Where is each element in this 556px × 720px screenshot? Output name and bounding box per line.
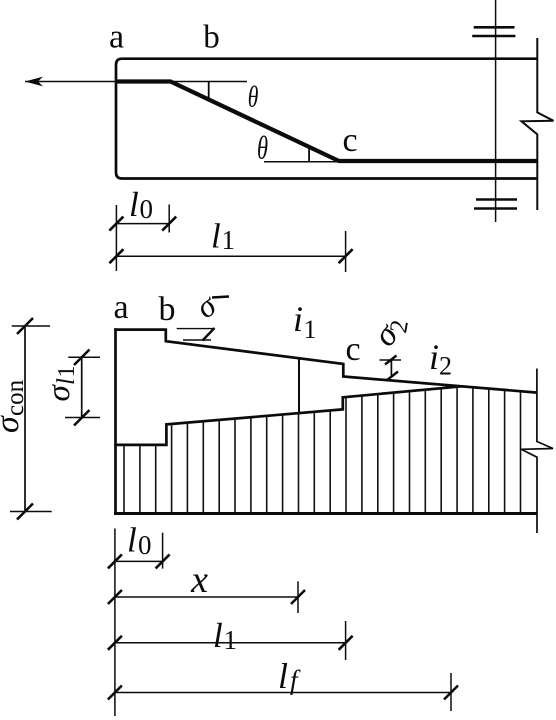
arrow head bbox=[25, 77, 43, 87]
sigma2 loss: vertical dimension line bbox=[390, 360, 392, 377]
svg-text:b: b bbox=[159, 291, 176, 328]
sigma_l1 top end line bbox=[68, 356, 100, 358]
svg-text:θ: θ bbox=[257, 130, 268, 166]
x tick right bbox=[291, 590, 305, 604]
sigma_con vertical line bbox=[24, 326, 26, 513]
svg-text:1: 1 bbox=[222, 225, 236, 255]
sigma_con bottom tick bbox=[17, 504, 33, 520]
right edge break line (bottom figure) bbox=[521, 369, 553, 534]
l0 tick right (bottom) bbox=[156, 554, 170, 568]
bottom base line bbox=[114, 512, 538, 515]
svg-text:i: i bbox=[293, 299, 303, 339]
sigma_l1 bottom end line bbox=[65, 417, 100, 419]
l0 end extension bbox=[162, 533, 164, 569]
svg-text:a: a bbox=[109, 19, 124, 56]
svg-text:l: l bbox=[53, 378, 80, 385]
x tick left bbox=[108, 590, 122, 604]
sigma1 loss: reference line lower bbox=[183, 339, 211, 341]
svg-text:1: 1 bbox=[54, 366, 80, 378]
l1 tick left (bottom) bbox=[108, 636, 122, 650]
sigma1 loss: reference line upper bbox=[177, 328, 215, 330]
x dimension line bbox=[115, 596, 298, 598]
svg-text:c: c bbox=[345, 331, 360, 368]
x end extension bbox=[297, 581, 299, 613]
sigma_con label (rotated) bbox=[0, 379, 29, 433]
sigma1 label: rotated digit 1 as bar bbox=[212, 297, 229, 298]
sigma_l1 label (rotated) bbox=[41, 366, 80, 402]
l1 tick right bbox=[339, 249, 353, 263]
l1 end extension (bottom) bbox=[345, 621, 347, 660]
theta label 2 bbox=[257, 130, 268, 166]
svg-text:a: a bbox=[113, 289, 128, 326]
lf end extension bbox=[450, 673, 452, 711]
svg-text:c: c bbox=[342, 122, 357, 159]
centerline bbox=[495, 0, 497, 222]
lf dimension line bbox=[115, 692, 451, 694]
sigma_con bottom end line bbox=[10, 511, 52, 513]
sigma_l1 vertical line bbox=[81, 357, 83, 418]
svg-text:b: b bbox=[203, 20, 220, 56]
x-position divider line bbox=[298, 359, 300, 414]
svg-text:con: con bbox=[2, 379, 29, 416]
centerline top tick 2 bbox=[472, 35, 515, 38]
sigma_l1 top tick bbox=[74, 350, 90, 366]
centerline bottom tick 1 bbox=[476, 198, 517, 201]
extension line at l0 end bbox=[168, 205, 170, 233]
svg-text:2: 2 bbox=[439, 352, 452, 381]
extension line at l1 end bbox=[345, 231, 347, 272]
sigma1 loss: tick slash bbox=[203, 328, 215, 341]
sigma2 loss: tick slash bottom bbox=[387, 372, 399, 381]
l1 tick left bbox=[109, 249, 123, 263]
lower boundary polyline: bottom-left shelf, step up, rising segments bbox=[114, 386, 462, 445]
l0 dimension line (bottom) bbox=[115, 560, 163, 562]
l1 dimension line (bottom) bbox=[115, 642, 346, 644]
lf tick right bbox=[444, 686, 458, 700]
svg-text:l: l bbox=[127, 521, 137, 560]
centerline top tick 1 bbox=[474, 26, 515, 29]
theta reference line 2 bbox=[264, 161, 340, 163]
svg-text:l: l bbox=[211, 216, 221, 255]
svg-text:x: x bbox=[190, 559, 208, 601]
theta label 1 bbox=[248, 80, 259, 113]
extension line at x=116 bbox=[115, 205, 117, 271]
svg-text:l: l bbox=[213, 616, 223, 655]
svg-text:1: 1 bbox=[224, 625, 238, 655]
svg-text:σ: σ bbox=[41, 384, 77, 402]
sigma2 loss: tick slash top bbox=[385, 356, 397, 365]
main extension line bbox=[114, 529, 116, 717]
svg-text:1: 1 bbox=[304, 315, 317, 344]
hatching bbox=[124, 387, 521, 514]
sigma_l1 bottom tick bbox=[74, 410, 90, 426]
sigma2 loss: reference line bbox=[380, 359, 402, 361]
svg-text:l: l bbox=[278, 656, 288, 696]
svg-text:θ: θ bbox=[248, 80, 259, 113]
beam outline bbox=[116, 59, 537, 179]
svg-text:0: 0 bbox=[138, 530, 152, 560]
top boundary polyline: top edge, b step, i1 slope, c step, i2 slope bbox=[114, 330, 537, 393]
theta tick 1 bbox=[208, 82, 210, 100]
l1 tick right (bottom) bbox=[339, 636, 353, 650]
theta tick 2 bbox=[308, 148, 310, 162]
jacking force arrow line / theta reference line 1 bbox=[25, 81, 247, 83]
left edge bbox=[114, 328, 117, 513]
svg-text:l: l bbox=[129, 185, 139, 224]
sigma_con top end line bbox=[12, 325, 50, 327]
svg-text:0: 0 bbox=[140, 194, 154, 224]
lf tick left bbox=[108, 686, 122, 700]
tendon profile (thick) bbox=[116, 82, 537, 162]
sigma_con top tick bbox=[17, 318, 33, 334]
l0 tick left bbox=[109, 217, 123, 231]
centerline bottom tick 2 bbox=[474, 207, 517, 210]
svg-text:i: i bbox=[429, 337, 439, 377]
l0 tick right bbox=[162, 217, 176, 231]
l1 dimension line bbox=[116, 255, 345, 257]
svg-text:σ: σ bbox=[0, 415, 26, 433]
l0 dimension line bbox=[116, 223, 169, 225]
l0 tick left (bottom) bbox=[108, 554, 122, 568]
beam right edge break line bbox=[522, 38, 554, 210]
